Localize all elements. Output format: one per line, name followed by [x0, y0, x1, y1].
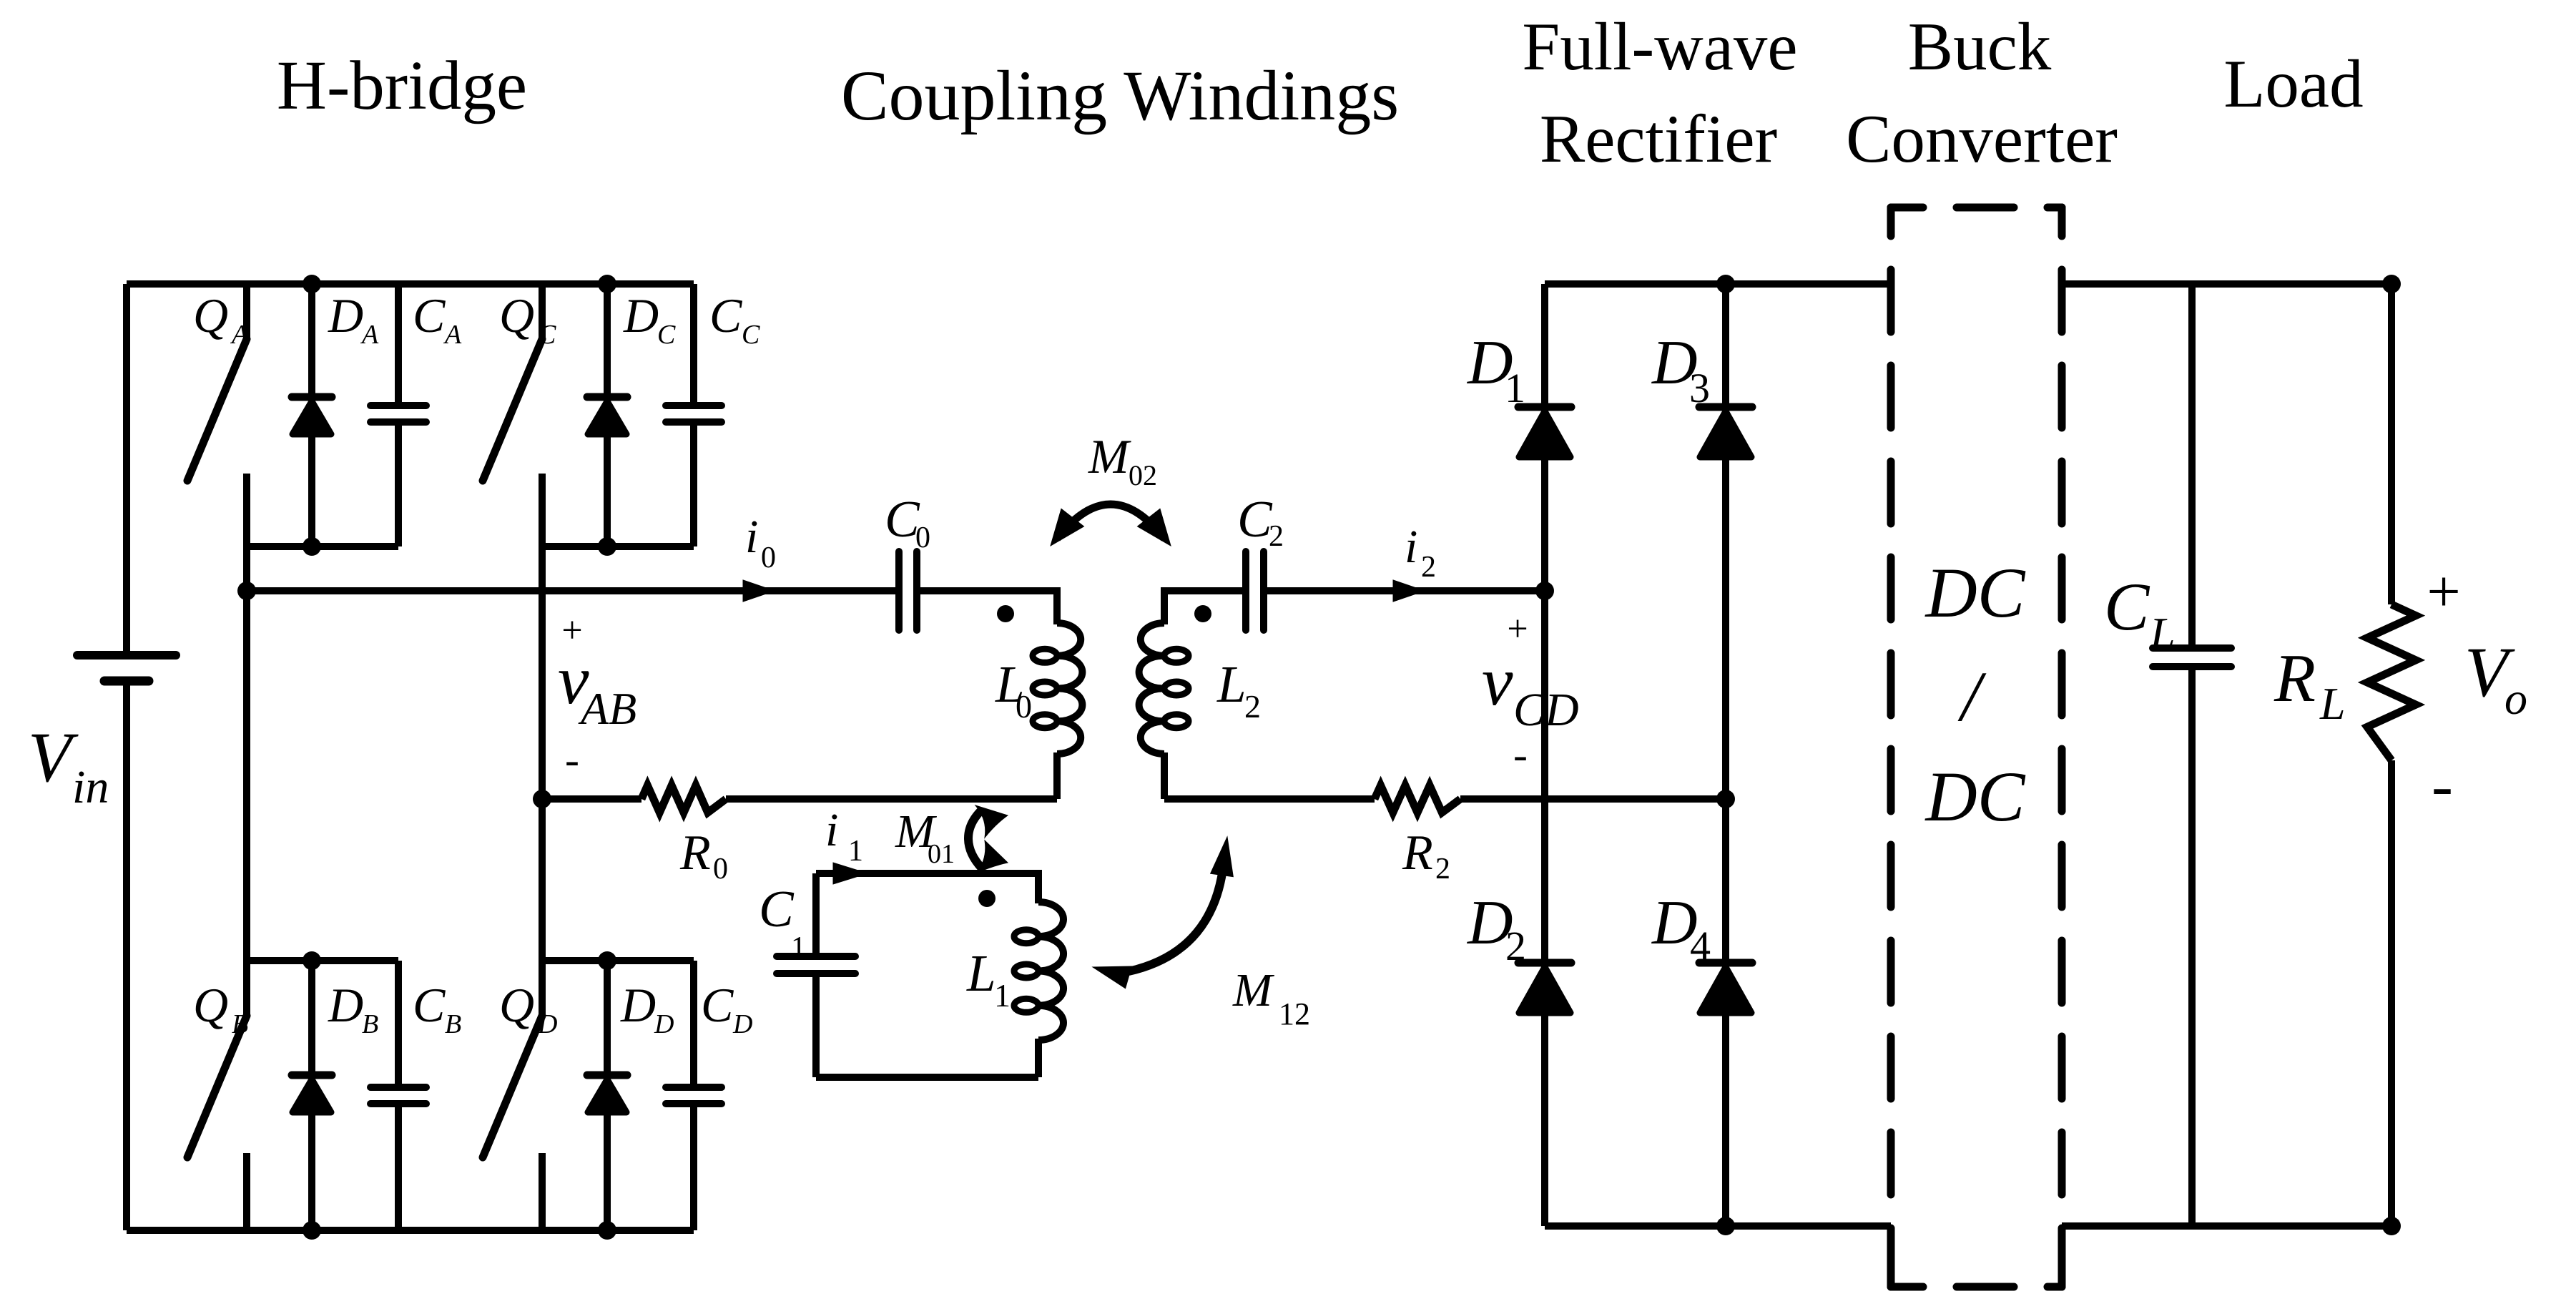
svg-text:-: -	[565, 736, 579, 783]
junction dot D_B bottom	[303, 1221, 321, 1240]
junction dot D_C bottom	[598, 537, 616, 556]
inductor L2	[1139, 623, 1189, 754]
label v_AB minus	[565, 736, 579, 783]
polarity dot L2	[1194, 605, 1211, 622]
svg-text:M: M	[1088, 429, 1131, 484]
wire: L2 bottom lead	[1164, 752, 1375, 799]
svg-text:-: -	[2432, 750, 2453, 821]
wire: upper-right cell node line	[542, 543, 694, 550]
label M02	[1088, 429, 1157, 491]
label L0	[995, 655, 1032, 725]
label R2	[1402, 825, 1450, 886]
svg-text:D: D	[328, 978, 363, 1032]
svg-text:4: 4	[1690, 923, 1711, 969]
svg-text:M: M	[1232, 964, 1275, 1016]
label Q_B	[193, 978, 248, 1039]
label Vo	[2464, 632, 2527, 724]
svg-text:0: 0	[713, 853, 728, 886]
svg-text:i: i	[1405, 521, 1417, 573]
svg-text:i: i	[745, 511, 758, 563]
svg-text:D: D	[623, 288, 659, 343]
label L2	[1216, 655, 1261, 725]
label R0	[679, 825, 728, 886]
transistor Q_C (switch)	[483, 284, 542, 481]
label v_AB plus	[561, 610, 582, 651]
label Q_A	[193, 288, 249, 350]
label C_B	[413, 978, 461, 1039]
capacitor C0	[899, 551, 917, 630]
label D3	[1651, 328, 1710, 411]
wire: L1 loop top	[816, 870, 1038, 877]
svg-text:B: B	[362, 1009, 378, 1039]
svg-text:C: C	[657, 320, 676, 350]
svg-text:L: L	[966, 944, 996, 1002]
svg-text:02: 02	[1129, 459, 1157, 491]
svg-text:C: C	[701, 978, 734, 1032]
svg-text:C: C	[759, 880, 795, 938]
junction dot D_A bottom	[303, 537, 321, 556]
svg-text:1: 1	[848, 835, 863, 868]
diode D_C	[587, 284, 627, 546]
transistor Q_D (switch)	[483, 961, 542, 1230]
wire: L1 top stub	[1035, 870, 1042, 903]
wire: upper-left cell node line	[247, 543, 398, 550]
wire: L1 bottom stub	[1035, 1039, 1042, 1077]
wire: H-bridge top rail	[127, 280, 694, 288]
label i1	[825, 804, 863, 868]
diode D_B	[292, 961, 332, 1230]
junction dot node B	[533, 790, 551, 808]
label D_A	[328, 288, 379, 350]
svg-text:1: 1	[994, 977, 1011, 1014]
capacitor C_D	[666, 961, 722, 1230]
current arrow i1	[833, 863, 867, 884]
label C_C	[709, 288, 760, 350]
svg-text:C: C	[2104, 569, 2150, 644]
capacitor C_A	[370, 284, 426, 546]
capacitor C1	[777, 873, 855, 1077]
svg-text:D: D	[328, 288, 363, 343]
wire: node A to C0	[247, 587, 899, 594]
svg-text:CD: CD	[1513, 684, 1579, 736]
section label: Load	[2223, 46, 2363, 122]
label RL	[2273, 640, 2346, 729]
junction dot node A	[237, 582, 256, 600]
junction dot load bottom	[2382, 1217, 2401, 1235]
mutual coupling arrow M02	[1051, 504, 1171, 546]
resistor R2	[1375, 785, 1460, 813]
resistor RL	[2367, 284, 2416, 1226]
svg-text:Load: Load	[2223, 46, 2363, 122]
wire: L0 bottom lead	[726, 752, 1057, 799]
diode D3	[1699, 407, 1752, 457]
label L1	[966, 944, 1011, 1014]
svg-text:H-bridge: H-bridge	[277, 47, 527, 124]
svg-text:i: i	[825, 804, 838, 856]
label C0	[885, 490, 930, 554]
label Q_D	[499, 978, 557, 1039]
wire: C0 to L0	[917, 587, 1057, 624]
label v_AB	[558, 642, 636, 734]
capacitor CL	[2153, 284, 2231, 1226]
junction dot load top	[2382, 275, 2401, 293]
label v_CD plus	[1507, 609, 1528, 649]
svg-text:1: 1	[791, 931, 806, 964]
svg-text:B: B	[445, 1009, 461, 1039]
svg-text:R: R	[2273, 640, 2316, 716]
svg-text:R: R	[1402, 825, 1433, 881]
junction dot D_D bottom	[598, 1221, 616, 1240]
svg-text:D: D	[620, 978, 656, 1032]
svg-text:Rectifier: Rectifier	[1540, 101, 1777, 177]
svg-text:V: V	[28, 717, 79, 797]
wire: lower-right cell node line	[542, 957, 694, 964]
svg-text:Q: Q	[193, 288, 228, 343]
wire: rectifier left leg	[1541, 284, 1548, 1226]
section label: Full-wave Rectifier	[1522, 9, 1797, 177]
svg-text:Q: Q	[193, 978, 228, 1032]
wire: load top rail	[2062, 280, 2391, 288]
svg-text:0: 0	[761, 541, 776, 574]
svg-text:2: 2	[1505, 923, 1526, 969]
svg-text:B: B	[232, 1009, 248, 1039]
section label: H-bridge	[277, 47, 527, 124]
label D4	[1651, 888, 1711, 969]
label C1	[759, 880, 806, 964]
diode D4	[1699, 963, 1752, 1013]
svg-text:2: 2	[1421, 551, 1436, 584]
wire: load bottom rail	[2062, 1222, 2391, 1230]
junction dot rectifier top	[1716, 275, 1735, 293]
label D2	[1467, 888, 1526, 969]
label Q_C	[499, 288, 556, 350]
svg-text:D: D	[537, 1009, 557, 1039]
label D_D	[620, 978, 674, 1039]
svg-text:A: A	[360, 320, 379, 350]
svg-text:A: A	[230, 320, 249, 350]
svg-text:DC: DC	[1924, 553, 2026, 632]
wire: leg of node A	[243, 474, 250, 961]
wire: R2 to node D	[1460, 795, 1726, 803]
label M01	[895, 805, 955, 869]
svg-text:C: C	[1237, 490, 1273, 548]
label D_B	[328, 978, 378, 1039]
label M12	[1232, 964, 1310, 1031]
diode D1	[1518, 407, 1571, 457]
current arrow i2	[1393, 580, 1425, 602]
current arrow i0	[743, 580, 775, 602]
svg-text:C: C	[538, 320, 556, 350]
junction dot D_C top	[598, 275, 616, 293]
section label: Coupling Windings	[841, 56, 1399, 135]
svg-text:2: 2	[1269, 520, 1284, 553]
svg-text:DC: DC	[1924, 757, 2026, 836]
wire: L1 loop bottom	[816, 1074, 1038, 1081]
polarity dot L0	[997, 605, 1014, 622]
svg-text:Buck: Buck	[1908, 9, 2052, 84]
label D1	[1467, 328, 1525, 411]
label D_C	[623, 288, 676, 350]
svg-text:Coupling Windings: Coupling Windings	[841, 56, 1399, 135]
svg-text:v: v	[1482, 643, 1513, 720]
svg-text:Q: Q	[499, 288, 534, 343]
svg-text:1: 1	[1505, 365, 1525, 411]
svg-text:01: 01	[928, 839, 955, 869]
capacitor C_B	[370, 961, 426, 1230]
label i0	[745, 511, 776, 574]
transistor Q_A (switch)	[187, 284, 247, 481]
diode D_A	[292, 284, 332, 546]
svg-text:in: in	[72, 761, 109, 813]
svg-text:C: C	[709, 288, 742, 343]
label i2	[1405, 521, 1436, 584]
svg-text:D: D	[732, 1009, 752, 1039]
polarity dot L1	[978, 890, 996, 907]
label CL	[2104, 569, 2176, 659]
wire: rectifier top rail	[1545, 280, 1891, 288]
label DC/DC	[1924, 553, 2026, 836]
wire: leg of node B	[539, 474, 546, 961]
section label: Buck Converter	[1846, 9, 2118, 177]
junction dot rectifier bottom	[1716, 1217, 1735, 1235]
mutual coupling arrow M01	[968, 805, 1008, 873]
transistor Q_B (switch)	[187, 961, 247, 1230]
battery Vin	[77, 284, 176, 1230]
svg-text:2: 2	[1244, 688, 1261, 725]
capacitor C2	[1246, 551, 1264, 630]
wire: C2 to rectifier	[1264, 587, 1545, 594]
svg-text:A: A	[443, 320, 462, 350]
resistor R0	[641, 785, 726, 813]
wire: L2 top lead	[1164, 587, 1246, 624]
svg-text:+: +	[2427, 559, 2460, 625]
svg-text:L: L	[1216, 655, 1247, 713]
wire: lower-left cell node line	[247, 957, 398, 964]
svg-text:L: L	[2149, 608, 2176, 659]
label v_CD	[1482, 643, 1579, 736]
svg-text:C: C	[413, 288, 446, 343]
junction dot node C	[1535, 582, 1554, 600]
svg-text:L: L	[2319, 678, 2346, 729]
svg-text:C: C	[413, 978, 446, 1032]
label Vin	[28, 717, 109, 813]
label Vo plus	[2427, 559, 2460, 625]
svg-text:3: 3	[1689, 365, 1710, 411]
svg-text:Full-wave: Full-wave	[1522, 9, 1797, 84]
junction dot D_D top	[598, 951, 616, 970]
svg-text:AB: AB	[578, 683, 636, 734]
capacitor C_C	[666, 284, 722, 546]
junction dot node D	[1716, 790, 1735, 808]
junction dot D_A top	[303, 275, 321, 293]
svg-text:o: o	[2504, 673, 2527, 724]
svg-text:Converter: Converter	[1846, 101, 2118, 177]
diode D2	[1518, 963, 1571, 1013]
wire: rectifier bottom rail	[1545, 1222, 1891, 1230]
svg-text:0: 0	[1016, 688, 1032, 725]
svg-text:-: -	[1513, 731, 1528, 778]
label C2	[1237, 490, 1284, 553]
wire: H-bridge bottom rail	[127, 1227, 694, 1234]
label Vo minus	[2432, 750, 2453, 821]
wire: rectifier right leg	[1722, 284, 1729, 1226]
svg-text:C: C	[742, 320, 760, 350]
svg-text:0: 0	[915, 521, 930, 554]
svg-text:Q: Q	[499, 978, 534, 1032]
label v_CD minus	[1513, 731, 1528, 778]
buck converter DC/DC block (dashed box)	[1891, 207, 2062, 1287]
inductor L1	[1014, 902, 1063, 1040]
inductor L0	[1033, 623, 1082, 754]
wire: R0 to node B	[542, 795, 641, 803]
junction dot D_B top	[303, 951, 321, 970]
mutual coupling arrow M12	[1093, 837, 1233, 989]
svg-text:2: 2	[1435, 853, 1450, 886]
label C_D	[701, 978, 752, 1039]
svg-text:R: R	[679, 825, 711, 881]
svg-text:12: 12	[1279, 996, 1310, 1031]
svg-text:D: D	[654, 1009, 674, 1039]
diode D_D	[587, 961, 627, 1230]
label C_A	[413, 288, 462, 350]
